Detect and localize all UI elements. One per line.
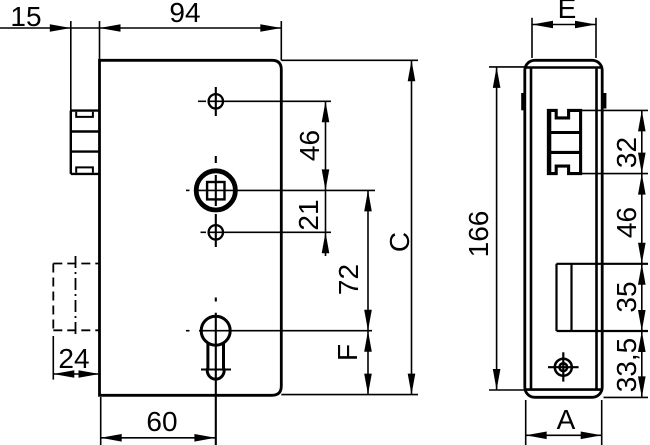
svg-text:46: 46: [294, 130, 325, 161]
svg-text:60: 60: [146, 406, 177, 437]
svg-text:15: 15: [10, 1, 41, 32]
svg-text:94: 94: [169, 0, 200, 28]
svg-text:E: E: [558, 0, 577, 24]
svg-text:72: 72: [333, 264, 364, 295]
svg-text:32: 32: [611, 137, 642, 168]
svg-text:46: 46: [611, 207, 642, 238]
svg-text:24: 24: [58, 343, 89, 374]
svg-text:33,5: 33,5: [611, 338, 642, 393]
svg-text:35: 35: [611, 281, 642, 312]
svg-text:21: 21: [293, 199, 324, 230]
svg-text:A: A: [557, 404, 576, 435]
svg-text:C: C: [384, 232, 415, 252]
svg-text:166: 166: [463, 211, 494, 258]
svg-text:F: F: [332, 344, 363, 361]
